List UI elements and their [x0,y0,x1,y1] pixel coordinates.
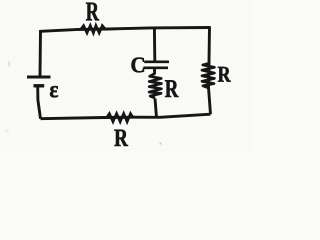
resistor R2 [149,72,161,98]
label R3 [218,67,231,82]
capacitor C1 plate top [144,60,169,63]
wire left upper [39,30,42,76]
wire bottom [41,114,211,119]
wire left lower [38,86,41,119]
resistor R3 [202,62,214,88]
wire top [41,28,210,32]
resistor R1 [78,26,108,34]
battery B1 plate long [27,76,51,79]
wire right [209,26,211,114]
label C1 [132,58,145,73]
label R4 [114,130,128,146]
label R1 [86,3,99,21]
label R2 [165,80,179,97]
label epsilon [50,86,58,97]
capacitor C1 plate bottom [144,66,169,69]
resistor R4 [105,114,136,122]
wire middle branch upper [153,28,156,61]
wire middle branch lower [155,99,157,118]
wire capacitor to resistor [153,68,156,73]
battery B1 plate short [34,84,45,87]
